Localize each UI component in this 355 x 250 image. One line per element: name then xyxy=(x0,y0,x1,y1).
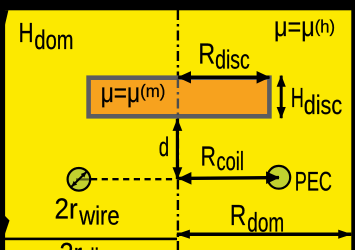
svg-text:disc: disc xyxy=(215,44,250,74)
svg-text:μ=μ: μ=μ xyxy=(101,77,140,108)
svg-text:disc: disc xyxy=(84,243,118,250)
svg-text:(h): (h) xyxy=(315,16,335,36)
svg-text:d: d xyxy=(159,132,169,162)
svg-text:dom: dom xyxy=(247,208,284,238)
svg-text:μ=μ: μ=μ xyxy=(274,11,315,42)
svg-text:H: H xyxy=(19,17,34,48)
svg-text:R: R xyxy=(198,39,215,71)
svg-text:R: R xyxy=(201,141,216,172)
svg-text:(m): (m) xyxy=(140,81,165,101)
svg-text:PEC: PEC xyxy=(295,166,332,196)
svg-text:R: R xyxy=(230,199,246,231)
svg-text:H: H xyxy=(291,82,304,113)
svg-text:2r: 2r xyxy=(60,238,83,250)
svg-text:coil: coil xyxy=(217,146,244,176)
svg-text:disc: disc xyxy=(304,90,343,120)
svg-text:dom: dom xyxy=(34,25,73,55)
svg-text:wire: wire xyxy=(78,203,119,231)
svg-text:2r: 2r xyxy=(55,193,79,225)
